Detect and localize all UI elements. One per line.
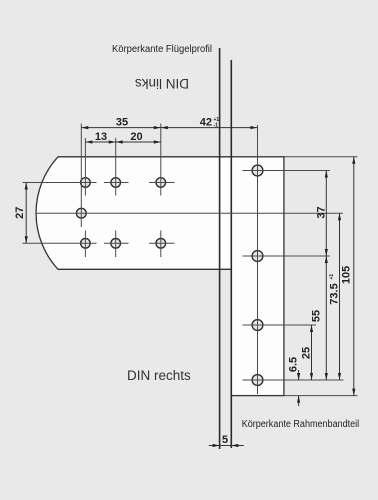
svg-text:6.5: 6.5: [287, 357, 299, 372]
svg-text:-1: -1: [214, 123, 219, 129]
svg-text:Körperkante Flügelprofil: Körperkante Flügelprofil: [112, 44, 212, 55]
svg-text:20: 20: [130, 131, 142, 143]
svg-text:25: 25: [301, 347, 313, 359]
svg-text:35: 35: [116, 117, 128, 129]
svg-text:Körperkante Rahmenbandteil: Körperkante Rahmenbandteil: [242, 419, 360, 430]
svg-text:37: 37: [316, 206, 328, 218]
svg-text:DIN links: DIN links: [135, 76, 189, 91]
svg-text:+1: +1: [329, 274, 335, 280]
svg-text:105: 105: [341, 266, 353, 284]
svg-text:55: 55: [311, 310, 323, 322]
svg-text:42: 42: [200, 117, 212, 129]
svg-text:27: 27: [14, 207, 26, 219]
svg-text:13: 13: [95, 131, 107, 143]
svg-text:73.5: 73.5: [329, 283, 341, 304]
svg-text:5: 5: [222, 434, 228, 446]
svg-text:DIN rechts: DIN rechts: [127, 368, 191, 383]
